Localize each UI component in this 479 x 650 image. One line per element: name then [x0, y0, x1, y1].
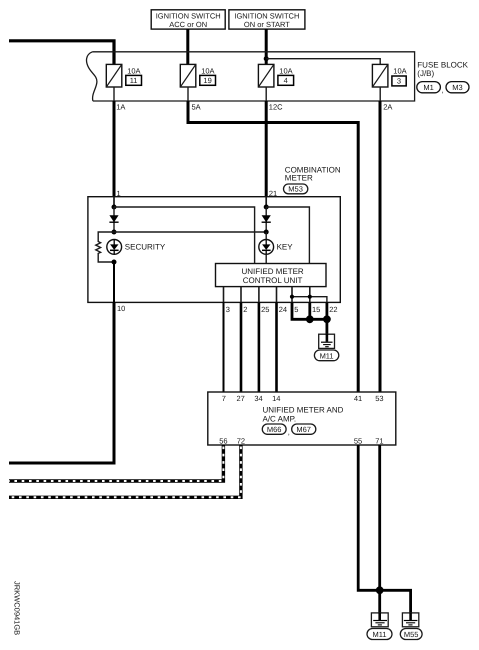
svg-text:10A: 10A: [393, 66, 406, 75]
svg-text:M53: M53: [288, 185, 303, 194]
label FUSE BLOCK (J/B): [417, 61, 468, 78]
wire meter pin 2 to amp pin 27: [240, 302, 243, 392]
node B junction: [112, 230, 117, 235]
svg-text:53: 53: [375, 394, 383, 403]
node D junction: [264, 205, 269, 210]
wire meter pin 3 to amp pin 7: [223, 302, 225, 392]
svg-text:25: 25: [261, 305, 269, 314]
connector box IGNITION SWITCH ON or START: [229, 10, 305, 29]
diode D2 key: [262, 207, 271, 232]
svg-text:10: 10: [117, 304, 125, 313]
lamp KEY: [259, 232, 293, 254]
wire meter pin 10 out to left: [9, 302, 114, 463]
fuse block (J/B) outline: [87, 52, 415, 101]
connector ref M67: [292, 424, 316, 434]
wire lamp to meter pin 10: [113, 262, 115, 302]
svg-text:41: 41: [354, 394, 362, 403]
wire branch to fuse 3: [266, 59, 380, 65]
svg-text:M66: M66: [267, 425, 282, 434]
node junction rail pin 15: [308, 295, 312, 299]
wire ground rail to pin 22: [292, 297, 327, 303]
svg-text:4: 4: [284, 76, 288, 85]
svg-text:1: 1: [117, 189, 121, 198]
svg-text:ACC or ON: ACC or ON: [169, 20, 207, 29]
wire pin 5 to ground rail: [292, 302, 327, 319]
svg-text:ON or START: ON or START: [244, 20, 290, 29]
wire rail from node D to control unit: [266, 207, 309, 264]
resistor R1: [96, 232, 114, 262]
label COMBINATION METER: [285, 166, 341, 183]
wire control unit to pin 15: [309, 287, 311, 303]
fuse 10A [19]: [180, 64, 215, 87]
connector ref M1: [417, 82, 444, 95]
svg-text:,: ,: [288, 427, 290, 436]
wire control unit to pin 24: [276, 287, 278, 303]
wire branch to ground M55: [380, 590, 411, 613]
svg-text:M3: M3: [452, 83, 462, 92]
connector ref M11 bottom: [367, 629, 392, 640]
svg-text:M11: M11: [372, 630, 386, 639]
diode D1 security: [109, 207, 118, 232]
svg-text:A/C AMP.: A/C AMP.: [263, 415, 297, 424]
svg-text:M11: M11: [320, 351, 334, 360]
svg-text:21: 21: [269, 189, 277, 198]
node big junction pin 22: [323, 315, 331, 323]
wire shielded amp pin 56 out to left: [9, 445, 223, 481]
svg-text:METER: METER: [285, 174, 313, 183]
svg-text:JRKWC0941GB: JRKWC0941GB: [13, 581, 22, 635]
fuse 10A [11]: [106, 64, 141, 87]
connector ref M66: [262, 424, 290, 436]
svg-text:15: 15: [312, 305, 320, 314]
svg-text:2: 2: [243, 305, 247, 314]
wire battery feed to fuse 11: [9, 41, 114, 65]
wire 5A over to A/C amp pin 41: [188, 101, 358, 392]
node A junction: [112, 205, 117, 210]
wire meter pin 24 to amp pin 14: [275, 302, 278, 392]
wire ON/START feed to fuse 4: [265, 29, 268, 64]
wire rail node B to key lamp node: [114, 231, 266, 233]
wire 12C to meter pin 21: [265, 101, 268, 197]
svg-text:M67: M67: [296, 425, 311, 434]
ground symbol M11 mid: [319, 334, 335, 348]
connector ref M11 mid: [314, 350, 338, 361]
connector ref M53: [284, 184, 308, 194]
svg-text:72: 72: [237, 437, 245, 446]
wire key lamp to control unit: [265, 254, 267, 263]
svg-text:27: 27: [237, 394, 245, 403]
svg-text:5: 5: [294, 305, 298, 314]
svg-text:UNIFIED METER AND: UNIFIED METER AND: [263, 406, 344, 415]
wire control unit to pin 3: [223, 287, 225, 303]
wire fuse 11 lower lead: [113, 87, 115, 101]
wire ACC feed to fuse 19: [186, 29, 189, 64]
node C junction: [112, 260, 117, 265]
wire pin 22 to ground: [325, 302, 328, 334]
wire pin 15 to ground rail: [308, 302, 311, 319]
node E junction: [264, 230, 269, 235]
wire fuse 19 lower lead: [187, 87, 189, 101]
wire shielded amp pin 72 out to left: [9, 445, 241, 497]
ground symbol M55 bottom: [402, 613, 418, 627]
svg-text:7: 7: [222, 394, 226, 403]
node junction on ON/START feed: [264, 56, 269, 61]
connector ref M3: [446, 82, 469, 93]
svg-text:SECURITY: SECURITY: [125, 243, 166, 252]
svg-text:,: ,: [442, 86, 444, 95]
svg-text:10A: 10A: [127, 66, 140, 75]
svg-text:M55: M55: [404, 630, 419, 639]
svg-text:11: 11: [130, 76, 138, 85]
svg-text:14: 14: [272, 394, 280, 403]
svg-text:19: 19: [203, 76, 211, 85]
svg-text:24: 24: [279, 305, 287, 314]
svg-text:UNIFIED METER: UNIFIED METER: [241, 267, 303, 276]
wire control unit to pin 5: [291, 287, 293, 303]
wire fuse 4 lower lead: [265, 87, 267, 101]
node junction rail pin 5: [290, 295, 294, 299]
svg-text:CONTROL UNIT: CONTROL UNIT: [243, 276, 303, 285]
svg-text:3: 3: [226, 305, 230, 314]
node big junction pin 15: [306, 315, 314, 323]
wire control unit to pin 25: [258, 287, 260, 303]
svg-text:12C: 12C: [269, 103, 283, 112]
svg-text:10A: 10A: [201, 66, 214, 75]
svg-text:34: 34: [254, 394, 262, 403]
wire meter pin 1 to node A: [113, 197, 115, 207]
unified meter and A/C amp box: [208, 392, 396, 445]
svg-text:5A: 5A: [192, 103, 201, 112]
wire control unit to pin 2: [240, 287, 242, 303]
svg-text:10A: 10A: [279, 66, 292, 75]
svg-text:2A: 2A: [383, 103, 392, 112]
svg-text:1A: 1A: [116, 103, 125, 112]
wire meter pin 25 to amp pin 34: [258, 302, 261, 392]
lamp SECURITY: [107, 240, 166, 255]
fuse 10A [4]: [258, 64, 293, 87]
wire 2A to A/C amp pin 53: [379, 101, 382, 392]
wire meter pin 21 to node D: [265, 197, 267, 207]
svg-text:71: 71: [375, 437, 383, 446]
svg-text:56: 56: [219, 437, 227, 446]
svg-text:55: 55: [354, 437, 362, 446]
wire 1A to meter pin 1: [113, 101, 116, 197]
svg-text:M1: M1: [423, 83, 433, 92]
wire rail from node A to control unit: [114, 207, 255, 264]
svg-text:22: 22: [329, 305, 337, 314]
svg-text:3: 3: [397, 77, 401, 86]
wire amp pin 55 to ground junction: [358, 445, 380, 590]
connector box IGNITION SWITCH ACC or ON: [151, 10, 225, 29]
svg-text:(J/B): (J/B): [417, 69, 434, 78]
connector ref M55 bottom: [400, 629, 422, 640]
fuse 10A [3]: [372, 64, 406, 87]
ground symbol M11 bottom: [371, 613, 388, 627]
wire amp pin 71 to ground M11: [378, 445, 381, 613]
svg-text:KEY: KEY: [277, 243, 294, 252]
combination meter box M53: [88, 197, 340, 303]
unified meter control unit box: [216, 264, 327, 287]
wire fuse 3 lower lead: [379, 87, 381, 101]
node big junction grounds: [376, 586, 384, 594]
